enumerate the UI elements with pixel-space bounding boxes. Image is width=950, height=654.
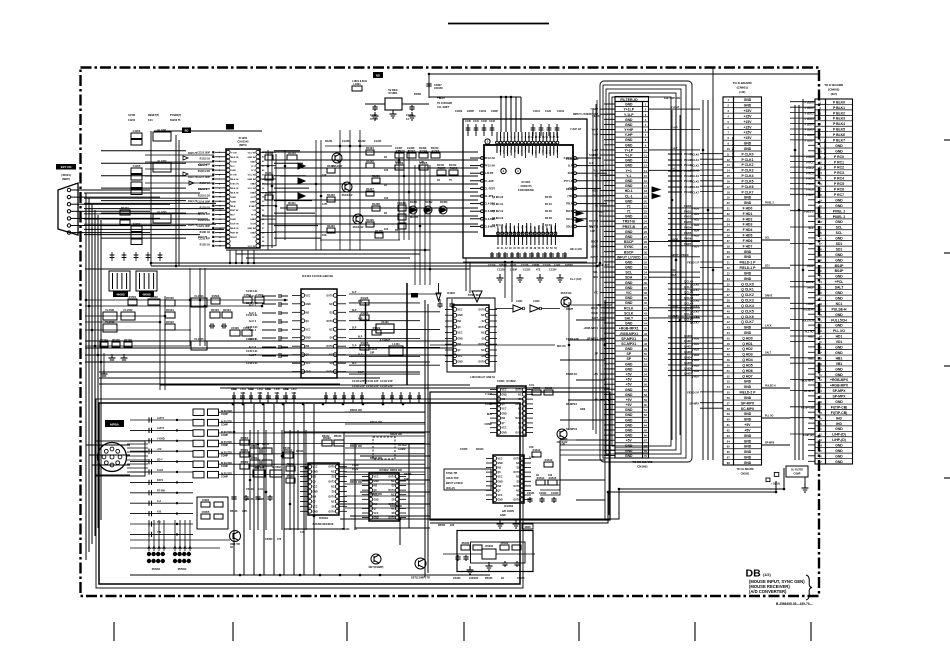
capacitor C1522 <box>209 323 215 328</box>
svg-text:L/HP-(D): L/HP-(D) <box>832 433 846 437</box>
IC1301 top pin row <box>496 132 559 144</box>
transistor Q5001 <box>230 531 241 547</box>
svg-text:R1227: R1227 <box>366 187 374 191</box>
svg-text:GND IN: GND IN <box>247 228 255 230</box>
IC1603 A-D converter (DIP) <box>486 455 531 508</box>
capacitor network CP1502 <box>136 271 157 291</box>
wire <box>204 268 206 346</box>
svg-text:SALT: SALT <box>835 286 845 290</box>
svg-text:SALT: SALT <box>765 352 772 355</box>
wires QFP right to filter column <box>587 158 610 211</box>
svg-text:R5032: R5032 <box>501 541 509 545</box>
resistor R5063 <box>286 462 295 471</box>
svg-text:OUT: OUT <box>250 197 255 199</box>
wire bundle from filter loops to middle ICs <box>540 440 609 495</box>
wire <box>419 165 421 285</box>
svg-text:GND: GND <box>625 281 633 285</box>
svg-text:VCC: VCC <box>502 409 507 411</box>
svg-text:R1523: R1523 <box>211 308 219 312</box>
svg-text:R5043: R5043 <box>334 435 342 438</box>
svg-text:GND: GND <box>744 147 752 151</box>
resistor R5012 <box>250 456 260 466</box>
svg-text:TO D BOARD: TO D BOARD <box>733 81 753 85</box>
labels above decoder cluster <box>455 110 565 113</box>
svg-text:GND: GND <box>625 260 633 264</box>
labels right of decoder enclosure <box>589 154 604 233</box>
svg-text:ALC 7: ALC 7 <box>249 354 257 357</box>
svg-text:+RGB-MPX: +RGB-MPX <box>830 378 849 382</box>
svg-text:R1229: R1229 <box>366 218 374 222</box>
svg-text:C144 0.01: C144 0.01 <box>246 338 258 341</box>
svg-text:GND IN: GND IN <box>247 157 255 159</box>
svg-text:SDA: SDA <box>625 276 633 280</box>
svg-text:0.01: 0.01 <box>292 392 297 395</box>
svg-text:P CLK4: P CLK4 <box>684 175 693 178</box>
svg-text:C1230: C1230 <box>342 140 350 143</box>
svg-text:P BLK1: P BLK1 <box>833 106 845 110</box>
svg-text:FL1504: FL1504 <box>195 294 204 298</box>
sub-circuit inner box <box>471 542 526 563</box>
frame around IC5001 <box>284 432 344 529</box>
wires from bus to IC1201 <box>101 151 186 238</box>
svg-text:B3 D3: B3 D3 <box>545 217 552 220</box>
svg-text:GND: GND <box>835 198 843 202</box>
svg-text:FL1502: FL1502 <box>124 308 133 312</box>
coupling capacitors at IC1401 inputs <box>249 294 288 358</box>
verticals right of middle ICs <box>604 300 606 520</box>
capacitor C1501 <box>243 293 252 303</box>
svg-text:GND: GND <box>625 123 633 127</box>
svg-text:GND: GND <box>231 219 236 221</box>
filter FL1202 <box>153 159 171 172</box>
svg-text:NC: NC <box>518 409 522 411</box>
svg-text:GND: GND <box>500 514 506 517</box>
svg-text:1K: 1K <box>230 546 233 549</box>
svg-text:OUT6: OUT6 <box>513 486 520 488</box>
svg-text:P RC0: P RC0 <box>834 155 844 159</box>
wires into filter column left <box>583 108 615 401</box>
svg-text:R1218 2.2K: R1218 2.2K <box>198 195 211 197</box>
svg-text:A/D CONV: A/D CONV <box>502 510 515 513</box>
svg-text:2200P: 2200P <box>467 110 474 113</box>
resistor R1202 <box>120 220 130 225</box>
svg-text:GND: GND <box>835 373 843 377</box>
svg-text:Q HD6: Q HD6 <box>742 369 752 373</box>
svg-text:GND: GND <box>625 388 633 392</box>
second label row above capacitor bank <box>232 388 297 395</box>
svg-text:B4 D4: B4 D4 <box>545 224 552 227</box>
svg-text:Q HD3: Q HD3 <box>742 353 752 357</box>
wire <box>178 140 180 266</box>
IC5002 comparator (DIP) <box>362 468 406 521</box>
svg-text:FIELD-1 P: FIELD-1 P <box>687 262 699 265</box>
svg-text:R1232: R1232 <box>358 140 366 143</box>
capacitor row below decoder <box>490 252 567 258</box>
svg-text:SP-MPX: SP-MPX <box>689 403 699 406</box>
IC1201 outside pin numbers <box>219 151 265 248</box>
capacitor bank at section top <box>231 388 421 403</box>
svg-text:R1524: R1524 <box>223 308 231 312</box>
svg-text:FOR MOUSE: FOR MOUSE <box>518 188 534 192</box>
wire <box>349 130 351 250</box>
svg-text:SP: SP <box>626 357 631 361</box>
svg-text:SYNC: SYNC <box>624 245 634 249</box>
bus wire <box>151 262 597 264</box>
region box verticals <box>424 300 426 577</box>
svg-text:LACK: LACK <box>765 325 772 328</box>
svg-text:Q HD2: Q HD2 <box>684 346 692 349</box>
svg-text:GND: GND <box>250 184 255 186</box>
vertical feeder wires left of CN601 <box>702 100 704 460</box>
resistor R1506 <box>124 338 132 347</box>
svg-text:DB: DB <box>746 568 762 580</box>
svg-text:Q CLK4: Q CLK4 <box>741 304 754 308</box>
svg-text:+PCL: +PCL <box>835 280 844 284</box>
svg-text:GND: GND <box>835 258 843 262</box>
svg-text:(J5001): (J5001) <box>61 173 71 177</box>
extra verticals in lower-left section <box>250 430 314 530</box>
svg-text:4.7K: 4.7K <box>322 203 327 206</box>
svg-text:IHD: IHD <box>836 422 842 426</box>
svg-text:FIELD-1 P: FIELD-1 P <box>739 261 756 265</box>
svg-text:CN1601: CN1601 <box>637 465 648 469</box>
wire <box>103 353 105 370</box>
FILTER-IO header <box>615 97 649 102</box>
filter FL1203 <box>153 210 171 223</box>
svg-text:GND: GND <box>835 454 843 458</box>
svg-text:COMP: COMP <box>221 445 228 447</box>
svg-text:0.01: 0.01 <box>241 392 246 395</box>
svg-text:P CLK7: P CLK7 <box>742 190 754 194</box>
svg-text:SCL: SCL <box>836 226 843 230</box>
vertical feeder wires left of CN602 <box>794 105 796 460</box>
svg-text:R1222: R1222 <box>327 193 335 197</box>
resistor R1615 <box>548 476 557 485</box>
amp triangle 2 <box>472 291 482 302</box>
resistor R5011 <box>262 448 272 454</box>
svg-text:VCC: VCC <box>374 476 379 478</box>
svg-text:P CLK0: P CLK0 <box>684 153 693 156</box>
svg-text:OUT9: OUT9 <box>478 362 485 364</box>
resistor R1306 <box>431 149 440 158</box>
bottom registration ticks <box>113 622 115 641</box>
svg-text:VCC IN: VCC IN <box>248 152 256 154</box>
svg-text:OUT0: OUT0 <box>326 295 333 297</box>
svg-text:FIELD-2 P: FIELD-2 P <box>739 391 756 395</box>
svg-text:VCC: VCC <box>498 477 503 479</box>
wires into decoder left pins <box>455 160 466 232</box>
svg-text:GND: GND <box>625 393 633 397</box>
board subtitle lines <box>749 579 805 594</box>
sheet border (dash-dot frame) <box>81 68 820 597</box>
ground <box>409 112 416 120</box>
resistor R1230 <box>375 229 383 238</box>
svg-text:Q HD4: Q HD4 <box>684 356 692 359</box>
svg-text:F HD4: F HD4 <box>684 227 692 230</box>
routing loop rectangles around filter column <box>600 81 692 462</box>
svg-text:Q HD7: Q HD7 <box>684 373 692 376</box>
bus wire <box>85 268 470 270</box>
filter FL1503 <box>103 320 117 332</box>
svg-text:C1353 10P: C1353 10P <box>566 158 579 161</box>
capacitor C1211 <box>131 239 142 245</box>
resistor R5031 <box>473 545 482 550</box>
svg-text:GND: GND <box>744 326 752 330</box>
svg-text:C1310: C1310 <box>479 110 487 113</box>
svg-text:Y/C: Y/C <box>626 291 632 295</box>
svg-text:C5034: C5034 <box>453 577 461 580</box>
svg-text:Q CLK3: Q CLK3 <box>741 299 754 303</box>
svg-text:GND: GND <box>744 434 752 438</box>
svg-text:+5V: +5V <box>157 448 162 451</box>
svg-text:R1505: R1505 <box>112 338 120 342</box>
svg-text:Q CLK3: Q CLK3 <box>684 297 694 300</box>
svg-text:DL-FILTER: DL-FILTER <box>791 470 803 472</box>
resistor R5060 <box>240 436 249 445</box>
svg-text:Q CLK2: Q CLK2 <box>741 293 754 297</box>
wire <box>85 329 191 331</box>
svg-text:4.7K: 4.7K <box>529 456 534 459</box>
svg-text:F HD6: F HD6 <box>743 239 753 243</box>
lower mid section frame <box>430 392 610 520</box>
svg-text:B1 D1: B1 D1 <box>545 203 552 206</box>
svg-text:(A/D CONVERTER): (A/D CONVERTER) <box>749 589 787 594</box>
svg-text:BD: BD <box>376 74 380 78</box>
svg-text:FL1201: FL1201 <box>158 128 167 132</box>
svg-text:+9V: +9V <box>626 403 633 407</box>
svg-text:COMP: COMP <box>221 466 228 468</box>
svg-text:X-B: X-B <box>157 510 161 513</box>
capacitor C1520 <box>230 326 240 336</box>
svg-text:R1228: R1228 <box>372 202 380 206</box>
svg-text:OUT6: OUT6 <box>326 346 333 348</box>
svg-text:IC1301: IC1301 <box>521 180 530 184</box>
svg-text:CN1801: CN1801 <box>741 473 750 476</box>
svg-text:R1215 1K: R1215 1K <box>200 159 211 161</box>
svg-text:PULSE-H: PULSE-H <box>765 385 776 388</box>
wire <box>85 321 160 323</box>
svg-text:GND: GND <box>625 138 633 142</box>
resistor R1502 <box>148 295 160 305</box>
wires into CN601 <box>700 154 723 409</box>
svg-text:GND: GND <box>625 215 633 219</box>
diode D1201 <box>298 163 305 169</box>
svg-text:R5030 10K: R5030 10K <box>350 445 362 448</box>
svg-text:R1242: R1242 <box>265 191 273 195</box>
input labels for IC1602 <box>485 393 493 426</box>
svg-text:GND: GND <box>458 338 463 340</box>
svg-text:IC5002: IC5002 <box>379 468 388 472</box>
svg-text:4.19MHZ: 4.19MHZ <box>380 339 391 342</box>
ground <box>467 566 474 574</box>
svg-text:Q CLK5: Q CLK5 <box>741 309 754 313</box>
signal name table <box>444 469 491 490</box>
label 4606B <box>113 291 128 297</box>
svg-text:SP-MPX: SP-MPX <box>765 442 775 445</box>
svg-text:R1502: R1502 <box>150 295 158 299</box>
wire <box>414 165 416 285</box>
capacitor C5062 <box>255 495 260 501</box>
svg-text:GND: GND <box>835 144 843 148</box>
svg-text:R1356 1K: R1356 1K <box>566 373 577 376</box>
svg-text:R5061: R5061 <box>241 448 249 452</box>
ground <box>802 484 809 492</box>
IC1401 right components <box>360 296 369 305</box>
svg-text:R5020 10K: R5020 10K <box>390 433 402 436</box>
wire <box>160 384 470 386</box>
wire <box>596 100 598 263</box>
svg-text:VCC: VCC <box>313 487 318 489</box>
svg-text:GND: GND <box>835 427 843 431</box>
svg-text:GND: GND <box>744 142 752 146</box>
supply rail wire <box>429 73 818 75</box>
svg-text:P CLK5: P CLK5 <box>742 179 754 183</box>
svg-text:BSCP: BSCP <box>591 241 598 244</box>
stub wires left of filter column (all rows) <box>604 104 615 456</box>
svg-text:RF12-3H: RF12-3H <box>485 157 495 160</box>
stub wires to region edge <box>560 320 605 500</box>
svg-text:R5050 10K: R5050 10K <box>390 469 402 472</box>
svg-text:GND: GND <box>306 338 311 340</box>
svg-text:1LP: 1LP <box>568 165 573 168</box>
svg-text:F HD0: F HD0 <box>743 207 753 211</box>
svg-text:C5047: C5047 <box>352 464 360 467</box>
svg-text:R5030: R5030 <box>462 541 470 545</box>
svg-text:C1411 22P: C1411 22P <box>366 380 379 383</box>
svg-text:R1211: R1211 <box>288 201 296 205</box>
svg-text:VCC: VCC <box>498 458 503 460</box>
svg-text:+15V: +15V <box>743 114 752 118</box>
svg-text:GND: GND <box>835 460 843 464</box>
svg-text:F HD6: F HD6 <box>684 237 692 240</box>
wire <box>85 315 165 317</box>
svg-text:+15V: +15V <box>743 120 752 124</box>
sub-circuit box <box>457 531 533 572</box>
svg-text:SCL: SCL <box>599 211 604 214</box>
resistor R5013 <box>262 460 272 466</box>
ground <box>513 520 520 528</box>
svg-text:NC: NC <box>516 490 520 492</box>
svg-text:R1230: R1230 <box>375 229 383 233</box>
svg-text:C1356 47P: C1356 47P <box>566 338 579 341</box>
svg-text:Y+HP: Y+HP <box>624 128 634 132</box>
svg-text:OUT9: OUT9 <box>328 511 335 513</box>
label box RX1 (black) <box>411 293 418 298</box>
resistor R1308 <box>449 166 458 175</box>
svg-text:(CN602): (CN602) <box>828 88 839 92</box>
svg-text:SDA: SDA <box>593 276 598 279</box>
QFP interior fill text <box>492 196 552 227</box>
wire <box>340 518 400 520</box>
resistor R1524 <box>222 308 232 318</box>
svg-text:GND: GND <box>744 461 752 465</box>
svg-text:P RC2: P RC2 <box>834 166 844 170</box>
svg-text:C141 0.01: C141 0.01 <box>246 302 258 305</box>
svg-text:R125 75: R125 75 <box>198 212 208 215</box>
svg-text:CL-3HP: CL-3HP <box>485 180 494 183</box>
svg-text:Y-GND: Y-GND <box>157 438 165 441</box>
svg-text:IC1603: IC1603 <box>504 504 513 508</box>
resistor R1242 <box>265 191 273 200</box>
svg-text:2.2K: 2.2K <box>560 443 565 446</box>
resistor R1228 <box>372 202 380 211</box>
svg-text:CXA1545: CXA1545 <box>237 140 249 144</box>
svg-text:(1/2): (1/2) <box>739 90 745 94</box>
svg-text:Q HD0: Q HD0 <box>684 335 692 338</box>
svg-text:(MPX): (MPX) <box>239 143 246 147</box>
svg-text:SYNC SEP: SYNC SEP <box>468 294 481 297</box>
svg-text:COMP: COMP <box>221 424 228 426</box>
svg-text:COMP: COMP <box>221 435 228 437</box>
wires out of filter column right <box>649 106 701 318</box>
svg-text:R1220 2.2K: R1220 2.2K <box>198 220 211 222</box>
stub wires into CN602 remaining rows <box>808 102 815 462</box>
svg-text:GND: GND <box>502 432 507 434</box>
capacitor C1205 <box>131 164 142 174</box>
svg-text:D1302: D1302 <box>425 201 433 204</box>
svg-text:BLK IN: BLK IN <box>231 188 239 190</box>
svg-text:4.7K: 4.7K <box>242 510 247 513</box>
svg-text:3LP: 3LP <box>352 309 357 312</box>
svg-text:DL5001: DL5001 <box>255 466 265 469</box>
svg-text:A-RT1: A-RT1 <box>157 417 165 420</box>
svg-text:Q CLK1: Q CLK1 <box>741 288 754 292</box>
svg-text:BLK IN: BLK IN <box>231 228 239 230</box>
svg-text:DET(COMP): DET(COMP) <box>369 565 384 569</box>
svg-text:C1605: C1605 <box>460 448 468 451</box>
QFP bottom feed wires <box>504 262 506 298</box>
resistor R1520 <box>165 296 175 306</box>
svg-text:R5080 10K: R5080 10K <box>390 505 402 508</box>
svg-text:X-A: X-A <box>157 500 161 503</box>
capacitor C1203 <box>131 129 142 139</box>
svg-text:220: 220 <box>450 524 455 527</box>
svg-text:+15V: +15V <box>743 136 752 140</box>
svg-text:TO CG BOARD: TO CG BOARD <box>737 468 754 471</box>
svg-text:R1312: R1312 <box>449 164 457 167</box>
wires above decoder <box>429 97 521 132</box>
svg-text:RV5001: RV5001 <box>152 568 161 571</box>
resistor array RV5001 <box>147 552 165 571</box>
svg-text:C1203: C1203 <box>133 129 141 133</box>
svg-text:R-Y: R-Y <box>251 215 255 217</box>
svg-text:SD1: SD1 <box>765 265 770 268</box>
wire <box>164 296 166 390</box>
svg-text:Q CLK4: Q CLK4 <box>684 302 694 305</box>
svg-text:SC-MPX: SC-MPX <box>741 407 755 411</box>
svg-text:P RC4: P RC4 <box>834 177 844 181</box>
svg-text:GND: GND <box>250 233 255 235</box>
svg-text:C1205: C1205 <box>133 164 141 168</box>
svg-text:C1221 100P: C1221 100P <box>197 226 210 228</box>
svg-text:NC: NC <box>391 481 395 483</box>
svg-text:0.01: 0.01 <box>258 488 263 491</box>
svg-text:2SC2412: 2SC2412 <box>342 193 353 197</box>
svg-text:SP-MPX: SP-MPX <box>741 401 755 405</box>
resistor R1201 <box>120 206 130 215</box>
svg-text:OUT9: OUT9 <box>513 500 520 502</box>
svg-text:NC: NC <box>329 304 333 306</box>
IC1301 bottom pin row <box>497 232 558 250</box>
svg-text:A-RT2: A-RT2 <box>157 427 165 430</box>
svg-text:GND: GND <box>744 418 752 422</box>
component box L1202 (black) <box>226 124 234 130</box>
svg-text:GND: GND <box>625 103 633 107</box>
resistor R1225 <box>366 159 374 168</box>
svg-text:R5040 10K: R5040 10K <box>370 457 382 460</box>
svg-text:BLK IN: BLK IN <box>231 193 239 195</box>
decoupling capacitors above decoder <box>465 120 559 136</box>
